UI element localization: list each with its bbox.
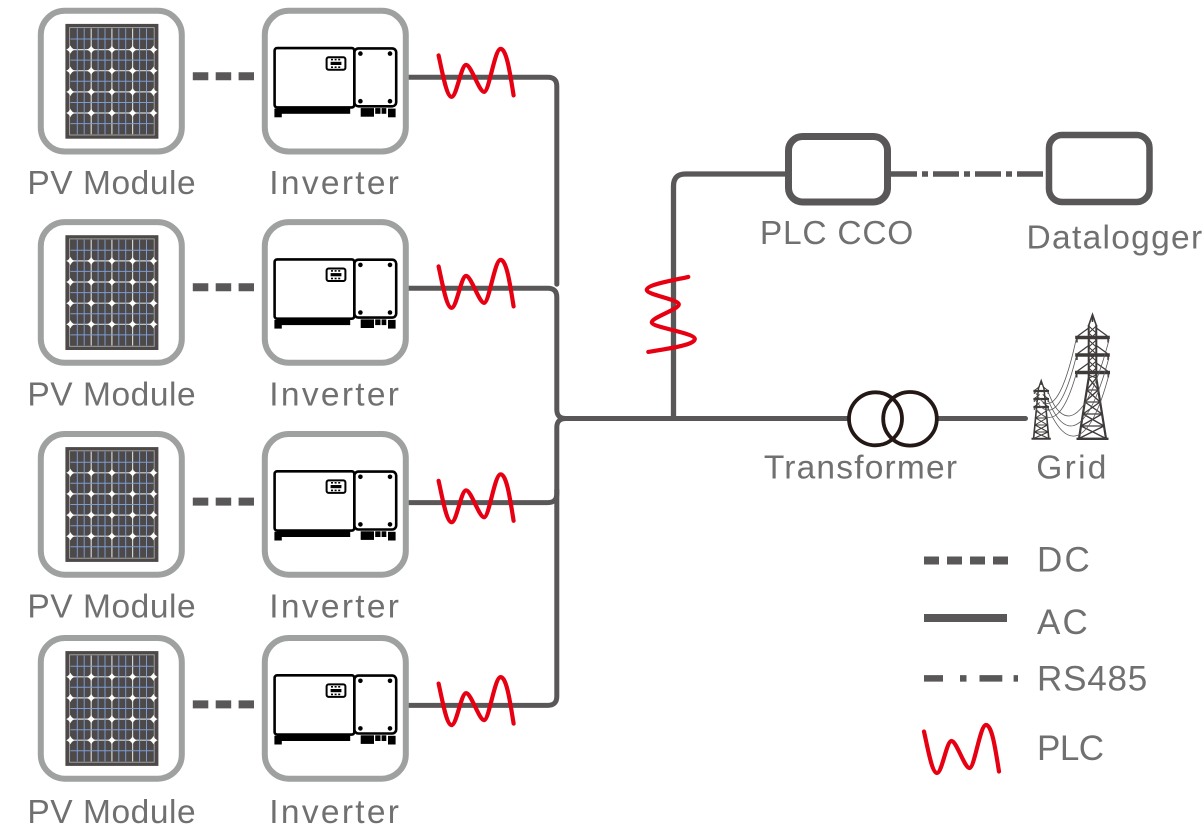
svg-text:PV Module: PV Module [27,165,196,202]
svg-text:PV Module: PV Module [27,377,196,414]
svg-text:PLC CCO: PLC CCO [760,215,914,252]
svg-text:Inverter: Inverter [269,794,401,829]
svg-text:Transformer: Transformer [764,450,958,487]
svg-text:Inverter: Inverter [269,589,401,626]
svg-text:Datalogger: Datalogger [1027,220,1204,257]
svg-text:Inverter: Inverter [269,377,401,414]
svg-text:PLC: PLC [1037,729,1104,768]
svg-text:Inverter: Inverter [269,165,401,202]
svg-text:DC: DC [1037,541,1092,580]
svg-text:RS485: RS485 [1037,660,1148,699]
svg-text:Grid: Grid [1036,450,1109,487]
svg-text:AC: AC [1037,603,1090,642]
svg-text:PV Module: PV Module [27,589,196,626]
svg-text:PV Module: PV Module [27,794,196,829]
